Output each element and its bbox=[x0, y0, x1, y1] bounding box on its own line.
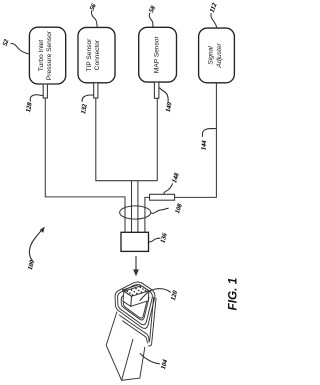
leader 136 bbox=[149, 238, 161, 242]
leader 112 bbox=[211, 13, 217, 28]
leader 58 bbox=[149, 13, 153, 27]
box TIP Sensor Connector 56 bbox=[78, 27, 115, 82]
leader 128 bbox=[30, 95, 43, 102]
leader 108 bbox=[151, 208, 169, 213]
box MAP Sensor 58 bbox=[139, 27, 177, 82]
leader 148 bbox=[164, 183, 173, 194]
wire 3 bbox=[138, 98, 157, 232]
right wall inner line bbox=[150, 297, 154, 341]
leader 56 bbox=[92, 11, 98, 28]
component 148 bbox=[150, 194, 175, 200]
ellipse 108 bbox=[120, 206, 151, 219]
pin block 120 bbox=[124, 286, 149, 297]
svg-text:Pressure Sensor: Pressure Sensor bbox=[46, 30, 53, 80]
arrow down bbox=[135, 256, 137, 270]
svg-text:Signal: Signal bbox=[208, 46, 215, 65]
svg-text:Adjuster: Adjuster bbox=[216, 43, 223, 69]
svg-text:TIP Sensor: TIP Sensor bbox=[86, 38, 93, 72]
svg-text:Turbo Inlet: Turbo Inlet bbox=[38, 40, 45, 71]
box Turbo Inlet Pressure Sensor 52 bbox=[29, 27, 65, 84]
recess tray ring bbox=[123, 292, 147, 319]
pin block cap strip bbox=[122, 285, 141, 292]
box 136 bbox=[121, 232, 149, 251]
body edges bbox=[106, 312, 145, 381]
svg-text:MAP Sensor: MAP Sensor bbox=[153, 35, 160, 73]
svg-text:144: 144 bbox=[200, 139, 208, 150]
connector head shroud outer rim bbox=[115, 282, 155, 328]
rim inner ring bbox=[118, 285, 153, 325]
body right face bbox=[122, 339, 149, 380]
wire 2 bbox=[96, 98, 158, 232]
leader 132 bbox=[82, 95, 94, 102]
stem 140 bbox=[154, 82, 159, 98]
leader 120 bbox=[140, 289, 171, 301]
stem 128 bbox=[43, 84, 47, 98]
stem 132 bbox=[94, 83, 98, 98]
leader arrow 100 bbox=[29, 230, 41, 261]
leader 52 bbox=[11, 43, 29, 53]
connector body 104 left face bbox=[106, 312, 133, 381]
wire 4 bbox=[145, 83, 217, 232]
body middle edge bbox=[122, 339, 133, 380]
box Signal Adjuster 112 bbox=[199, 28, 235, 83]
wire 1 bbox=[45, 98, 125, 232]
recess channel ring bbox=[121, 289, 149, 320]
pin dots bbox=[127, 291, 129, 293]
leader 144 bbox=[202, 129, 216, 137]
leader 104 bbox=[140, 353, 160, 364]
svg-text:FIG. 1: FIG. 1 bbox=[226, 278, 240, 311]
shroud base flange lower bbox=[116, 316, 148, 345]
leader 140 bbox=[159, 88, 168, 102]
head right wall silhouette bbox=[147, 298, 156, 346]
svg-text:Connector: Connector bbox=[94, 39, 101, 70]
shroud base flange upper bbox=[117, 313, 149, 342]
